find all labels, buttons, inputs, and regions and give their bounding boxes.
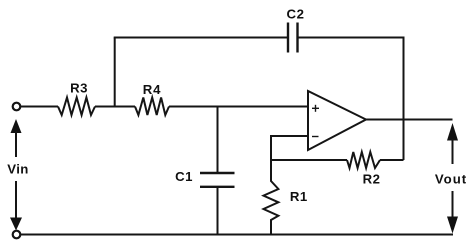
capacitor C1 top plate — [200, 172, 235, 174]
op-amp U1 triangle — [308, 91, 366, 150]
wire: C1 branch vertical from node B down to C1 top plate — [217, 107, 219, 174]
wire: right vertical from top rail down through output node to R2 corner — [403, 37, 405, 161]
op-amp U1 plus sign (non-inverting input) — [312, 105, 319, 112]
wire: R3 to R4 (node A at x=114.7) — [95, 106, 135, 108]
svg-text:C2: C2 — [286, 6, 304, 21]
wire: input terminal to R3 — [21, 106, 59, 108]
terminal: ground circle — [13, 231, 21, 239]
wire: C1 bottom plate to ground rail — [217, 187, 219, 235]
svg-text:Vin: Vin — [7, 162, 28, 177]
resistor R3 — [58, 98, 95, 116]
wire: top rail right segment from C2 to right vertical — [298, 37, 404, 39]
Vout arrow lower shaft — [452, 191, 454, 218]
resistor R1 (vertical, node C to ground) — [264, 160, 279, 235]
Vin arrow lower shaft — [15, 181, 17, 219]
wire: ground rail — [21, 234, 454, 236]
wire: top rail left segment to C2 — [114, 37, 288, 39]
terminal: input circle — [13, 103, 21, 111]
svg-text:R1: R1 — [290, 189, 308, 204]
Vout arrow lower head — [447, 217, 458, 234]
Vin arrow upper head — [11, 119, 22, 133]
wire: R2 to output vertical — [380, 159, 404, 161]
capacitor C2 right plate — [296, 23, 298, 53]
op-amp U1 minus sign (inverting input) — [312, 136, 319, 138]
resistor R2 — [347, 152, 380, 168]
svg-text:Vout: Vout — [435, 172, 467, 187]
wire: op-amp output to Vout terminal — [366, 119, 453, 121]
wire: R4 to op-amp non-inverting input (node B) — [169, 106, 308, 108]
Vin arrow upper shaft — [15, 131, 17, 157]
wire: node C to R2 — [271, 159, 347, 161]
wire: feedback branch vertical from node A up to top rail — [114, 38, 116, 107]
Vin arrow lower head — [10, 218, 22, 231]
Vout arrow upper head — [447, 123, 458, 141]
capacitor C1 bottom plate — [200, 186, 235, 188]
Vout arrow upper shaft — [452, 139, 454, 164]
capacitor C2 left plate — [287, 23, 289, 53]
svg-text:R2: R2 — [363, 172, 381, 187]
wire: inverting input to feedback node C — [271, 136, 308, 160]
svg-text:R4: R4 — [143, 82, 161, 97]
svg-text:R3: R3 — [70, 81, 88, 96]
resistor R4 — [135, 98, 169, 116]
svg-text:C1: C1 — [175, 169, 193, 184]
